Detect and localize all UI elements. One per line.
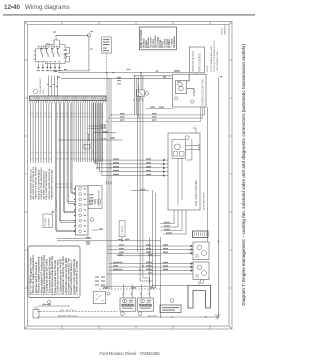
earth point at bottom right [215, 315, 221, 319]
fan motor inner box [175, 81, 186, 94]
tall label box (to instruments) [119, 221, 125, 237]
item circle below solenoid boxes [200, 280, 204, 284]
long vertical wires right-center [135, 76, 208, 270]
diagram frame inner [28, 25, 230, 327]
relay S-symbol top ticks [41, 47, 60, 50]
svg-text:ECU: ECU [43, 88, 45, 93]
ECU strip bottom pin stubs [30, 101, 106, 103]
bus left end labels [54, 71, 166, 78]
svg-text:AIR COND CUT-OUT RELAY K9: AIR COND CUT-OUT RELAY K9 [32, 166, 35, 199]
coolant temp switch box [93, 291, 105, 303]
svg-text:Ford Mondeo Diesel - OWM3465: Ford Mondeo Diesel - OWM3465 [99, 351, 160, 356]
junction dots solenoid links [139, 265, 143, 270]
frame ticks top [62, 22, 210, 25]
svg-text:FUEL INJECTION PUMP: FUEL INJECTION PUMP [196, 180, 198, 206]
pump inner box to right edge wires [185, 144, 199, 151]
svg-text:NEEDLE LIFT SENSOR (B44): NEEDLE LIFT SENSOR (B44) [37, 169, 40, 199]
diagnostic connector box at x=120.0 [120, 298, 136, 311]
ECU wires group C (dense right) [74, 103, 103, 162]
svg-text:THE CONNECTORS: THE CONNECTORS [217, 50, 219, 71]
fan feed horizontal wires [111, 107, 205, 122]
header rule [3, 14, 255, 15]
relay left edge stubs [33, 51, 35, 59]
svg-text:CRANKSHAFT SENSOR (B4): CRANKSHAFT SENSOR (B4) [50, 169, 53, 199]
to fuel heater dashed box [43, 214, 53, 228]
mid link wires [58, 126, 122, 140]
svg-text:(W/O A/T 5M COOL): (W/O A/T 5M COOL) [58, 314, 77, 317]
wires from relay area into strip top [49, 76, 58, 97]
third bus y=83.5 [135, 75, 173, 77]
frame ticks right [229, 60, 232, 288]
dashed option wires [40, 311, 118, 313]
pump circle symbol [174, 144, 180, 150]
wire colours legend box [140, 27, 177, 50]
relay pin labels [40, 48, 67, 59]
svg-text:Diagram 7: Engine management –: Diagram 7: Engine management – cooling f… [241, 44, 246, 306]
diagnostic connector box at x=137.7 [138, 298, 154, 311]
node circle top right of relay [87, 34, 90, 37]
svg-text:NOTE: NOTE [207, 65, 209, 72]
earth label box [160, 305, 181, 313]
svg-text:(A/T+ 5M COOL): (A/T+ 5M COOL) [60, 309, 76, 312]
link wire with label above aux box [131, 190, 150, 192]
fan item circles [175, 97, 178, 100]
pump feed wires [93, 103, 161, 176]
labels above center verticals [106, 182, 112, 185]
wire code label band 2 [30, 152, 103, 160]
label under connector column [86, 244, 90, 245]
page header [3, 4, 255, 16]
node circle above connector [48, 300, 51, 303]
extra mid links band [105, 241, 160, 256]
relay module K1 (top-left stepped box) [36, 40, 70, 63]
solenoid valve unit box 1 [193, 242, 209, 260]
wire code label band 3 (group B) [55, 183, 73, 188]
vertical diagram title (right margin) [241, 44, 246, 306]
fan motor circles (twin) [178, 82, 182, 86]
svg-text:12•40: 12•40 [4, 4, 20, 11]
step bends toward earth [100, 266, 188, 286]
svg-text:AIR TEMP SENSOR (B21) IN: AIR TEMP SENSOR (B21) IN [43, 170, 46, 200]
ECU wires group A (left) [31, 103, 47, 163]
extra labels on solenoid unit1 links [119, 244, 124, 253]
bus wire y=72.5 [58, 73, 189, 79]
relay pin number blobs [37, 61, 61, 71]
inline connector circles on pump feed [94, 161, 96, 163]
svg-text:TO FUEL: TO FUEL [45, 217, 47, 226]
svg-text:LOCK ON THE MODELS WITH: LOCK ON THE MODELS WITH [214, 40, 216, 71]
svg-text:17 Main earth point E1 (body: 17 Main earth point E1 (body) [76, 261, 79, 295]
svg-text:WIRE FUSEBOX: WIRE FUSEBOX [199, 53, 202, 72]
wire relay top to node circle [50, 35, 89, 71]
svg-text:ENGINE MGMT: ENGINE MGMT [40, 77, 42, 93]
short links above key box [57, 239, 105, 241]
dot on right bus at solenoid level [218, 241, 220, 243]
inline fuse marks [146, 108, 173, 110]
key to items box [28, 246, 80, 298]
battery supply L-block [189, 47, 204, 73]
svg-text:AUXILIARY FBOX: AUXILIARY FBOX [203, 192, 206, 210]
ECU connector strip [30, 96, 107, 101]
fuel injection pump assembly box [168, 133, 200, 210]
pump inner box [172, 140, 185, 159]
pump connector arrows left edge [161, 159, 168, 176]
transmission connector box [88, 186, 102, 209]
rotated component name labels under group A [29, 166, 48, 199]
solenoid valve unit box 2 [193, 262, 209, 280]
extra wires between groups [49, 103, 52, 163]
labels near node [53, 31, 93, 70]
wire id labels right of buses [117, 69, 143, 101]
links to solenoid unit 1 [107, 246, 189, 253]
connector column [76, 186, 89, 235]
verticals from buses [136, 78, 138, 117]
svg-text:Na Natural: Na Natural [173, 36, 176, 48]
NOTE vertical text right side [207, 40, 219, 71]
relay circle symbol [46, 43, 50, 47]
links to solenoid unit 2 [107, 264, 193, 275]
ECU item circle [33, 89, 37, 93]
dashed drop from ignition box [106, 53, 108, 72]
svg-text:OWM3465: OWM3465 [225, 24, 227, 35]
engine cooling fan assembly box [173, 74, 206, 107]
item circle under transmission box [90, 218, 94, 222]
svg-text:HEATER: HEATER [47, 218, 50, 227]
svg-text:TO INSTR: TO INSTR [122, 225, 124, 235]
bus junction dots [106, 72, 121, 79]
svg-text:5M COOL: 5M COOL [148, 315, 158, 317]
relay bottom pins with arrows [38, 64, 61, 69]
circle beside solenoid [145, 92, 149, 96]
long vertical wires center [107, 73, 111, 290]
fan feed entry wire [187, 74, 194, 96]
svg-text:Wiring diagrams: Wiring diagrams [25, 4, 70, 11]
svg-text:EGR SOLENOID VALVE (Y31): EGR SOLENOID VALVE (Y31) [29, 169, 32, 200]
relay internal pin row marks [38, 46, 60, 48]
left label rows above thermal switch [95, 276, 105, 285]
earth conduit shape [188, 286, 211, 309]
wire code label band 1 [30, 113, 103, 118]
diagram frame outer [25, 22, 233, 330]
pump internal wiring [178, 128, 196, 205]
bus wire y=78.3 [61, 77, 173, 79]
long vertical wires right pair [150, 190, 161, 318]
pump item circle [185, 136, 189, 140]
svg-text:NOTE: BRAKE AND SHIFT: NOTE: BRAKE AND SHIFT [210, 44, 213, 71]
svg-text:COOLANT TEMP SENSOR B13: COOLANT TEMP SENSOR B13 [40, 167, 43, 200]
frame ticks left [25, 60, 28, 288]
stop solenoid label rows under pump [161, 224, 187, 235]
svg-text:BATTERY SUPPLY: BATTERY SUPPLY [192, 50, 195, 71]
frame ticks bottom [62, 326, 210, 329]
ECU wires group B (to connector column) [56, 103, 76, 232]
feeds into diagnostic connectors [124, 284, 150, 292]
ignition switch connector box [102, 37, 111, 72]
pump box exit wires [174, 210, 186, 234]
relay fuse S-symbols [41, 49, 66, 62]
ECU label vertical text [40, 77, 45, 93]
right main bus [218, 78, 220, 319]
auxiliary connector dark box [193, 231, 209, 238]
svg-text:ENGINE COOLING FAN: ENGINE COOLING FAN [202, 79, 205, 105]
frame corner mitres [25, 22, 233, 330]
glow plug solenoid (small component under bus) [137, 73, 145, 99]
bottom-left connector [33, 310, 39, 319]
svg-text:H33342: H33342 [222, 27, 224, 35]
L-block to fan box stub [196, 73, 198, 74]
